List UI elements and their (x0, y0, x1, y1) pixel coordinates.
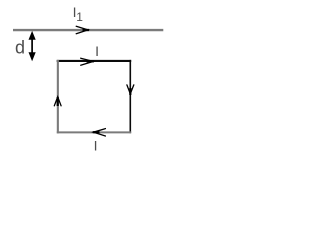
loop side: left (grey) (57, 60, 59, 133)
wire W1: long straight wire carrying current I1 (13, 29, 163, 31)
arrowhead: current I downward on loop right side (127, 85, 134, 95)
dimension arrow d: double-headed vertical arrow between wire and loop (29, 31, 36, 61)
svg-text:I: I (95, 43, 99, 59)
svg-text:d: d (15, 38, 25, 58)
loop side: top (black) (57, 60, 132, 62)
arrowhead: current I leftward on loop bottom side (93, 129, 106, 136)
arrowhead: current I rightward on loop top side (81, 58, 94, 65)
arrowhead: current I upward on loop left side (54, 97, 61, 106)
loop side: right (black) (129, 60, 131, 133)
svg-text:1: 1 (76, 10, 83, 24)
loop side: bottom (grey) (57, 131, 131, 133)
arrowhead: current direction I1 (rightward) on wire (76, 26, 89, 33)
label I1 (73, 4, 84, 24)
svg-text:I: I (94, 138, 98, 154)
